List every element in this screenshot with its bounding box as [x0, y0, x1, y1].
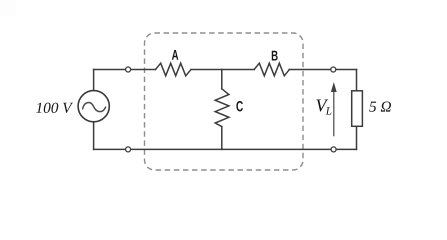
wire: right bottom lead [356, 126, 358, 149]
sine wave inside source [83, 103, 106, 112]
terminal: top right port [331, 67, 336, 72]
resistor RL: 5 ohm load box [352, 91, 363, 127]
wire: branch C top lead [221, 70, 223, 89]
label: V_L [316, 100, 328, 112]
wire: top right segment [289, 69, 356, 71]
wire: node between A and B [191, 69, 254, 71]
label: resistor C [236, 101, 243, 111]
label: resistor A [172, 50, 178, 60]
wire: top left segment [94, 69, 156, 71]
wire: right top lead [356, 70, 358, 91]
arrow: V_L reference direction [331, 82, 337, 136]
label: 5 ohm load value [369, 101, 391, 111]
wire: branch C bottom lead [221, 127, 223, 150]
wire: source bottom lead [93, 122, 95, 149]
resistor A [156, 63, 192, 76]
terminal: bottom right port [331, 147, 336, 152]
wire: source top lead [93, 70, 95, 91]
label: 100 V source value [36, 103, 73, 113]
source U1: AC voltage source circle [78, 91, 109, 122]
resistor C [215, 89, 229, 127]
dashed black-box boundary [145, 33, 304, 170]
terminal: bottom left port [126, 147, 131, 152]
wire: bottom segment [94, 148, 357, 150]
terminal: top left port [126, 67, 131, 72]
label: resistor B [272, 51, 278, 61]
resistor B [254, 63, 289, 76]
